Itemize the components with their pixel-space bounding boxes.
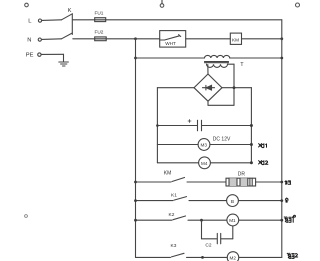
fuse FU2 (95, 37, 107, 41)
junction right rail primary (280, 57, 283, 60)
labels text (26, 8, 246, 260)
wire to WHT box (136, 38, 160, 40)
node L terminal (38, 19, 61, 22)
tiny right-side labels drawn as glyph blobs (259, 144, 298, 259)
top terminal circle center with stem (160, 0, 164, 7)
contact K2 rung (136, 216, 227, 220)
junction C1 left (156, 124, 159, 127)
wire PE down (63, 54, 65, 61)
ground (59, 62, 69, 66)
heater DR (226, 178, 256, 186)
svg-text:C2: C2 (205, 242, 211, 248)
motor M4 rung (157, 157, 251, 169)
transformer T secondary (207, 64, 228, 67)
capacitor C2 branch (202, 220, 233, 244)
capacitor C1 rung (157, 120, 251, 131)
wire secondary right over to bridge bottom (208, 64, 234, 105)
wire B to right rail (238, 200, 281, 202)
svg-text:KM: KM (164, 171, 172, 177)
wire secondary left to bridge top (207, 65, 209, 75)
junction rail A transformer feed (134, 57, 137, 60)
transformer core (205, 62, 229, 63)
svg-text:N: N (27, 38, 31, 44)
junction M4 right (250, 161, 253, 164)
label Xa1 (pump 1) (259, 144, 267, 148)
svg-text:K: K (68, 8, 72, 14)
right rail (281, 20, 283, 258)
small circle o left-bottom (25, 215, 28, 218)
wire primary feed left (136, 57, 205, 59)
svg-text:K1: K1 (171, 193, 177, 199)
wire WHT to KM coil (186, 38, 231, 40)
contact KM rung (136, 178, 227, 183)
svg-text:M3: M3 (201, 143, 208, 148)
wire KM to right rail (242, 38, 282, 40)
rail B' (DC right) (250, 88, 252, 163)
svg-text:FU2: FU2 (95, 29, 104, 34)
bridge rectifier diamond (194, 74, 222, 101)
svg-text:PE: PE (26, 52, 34, 58)
motor M1 (227, 214, 239, 226)
transformer T primary (205, 55, 230, 58)
diode inside bridge (203, 85, 215, 90)
junction rail A top (134, 37, 137, 40)
label bell (one CJK blob) (285, 198, 288, 202)
contact K1 rung (136, 197, 227, 201)
wire FU2 to rail A (106, 38, 135, 40)
fuse FU1 (95, 18, 106, 22)
svg-text:K2: K2 (169, 212, 175, 218)
wire L to FU1 (73, 19, 95, 21)
wire N to FU2 (73, 38, 95, 40)
junction bottom dot (201, 256, 204, 259)
contact K3 bottom rung (136, 253, 228, 257)
switch K pole 1 (62, 14, 73, 20)
junction right rail K2 rung (280, 219, 283, 222)
svg-text:K3: K3 (171, 243, 177, 249)
motor M3 rung (157, 139, 251, 151)
switch K pole 2 (62, 33, 73, 39)
junction M3 right (250, 143, 253, 146)
label fan1 (CJK blobs + 1 + degree) (284, 215, 295, 222)
node PE terminal (38, 53, 64, 56)
thermostat WHT box (160, 31, 186, 47)
junction right rail N (280, 37, 283, 40)
junction C1 right (250, 124, 253, 127)
label Xa2 (pump 2) (259, 161, 268, 165)
wire bridge left output (157, 87, 194, 89)
label fan2 (CJK blobs + 2) (287, 253, 297, 258)
node N terminal (38, 38, 61, 41)
svg-text:DC 12V: DC 12V (213, 136, 231, 142)
top terminal circle right (296, 3, 300, 7)
svg-text:M4: M4 (201, 161, 208, 166)
junction secondary drop crossing (233, 86, 236, 89)
svg-text:DR: DR (238, 172, 246, 178)
top terminal circle left (25, 3, 29, 7)
switch K link bar (71, 14, 73, 35)
label heater (two CJK blobs) (285, 181, 291, 185)
wire primary to right rail (230, 57, 282, 59)
wire DR to right rail (256, 181, 282, 183)
rail B (DC left) (156, 88, 158, 163)
junction rail A K2 (134, 219, 137, 222)
junction right rail KM rung (280, 181, 283, 184)
junction C2 branch (200, 219, 203, 222)
svg-text:L: L (28, 19, 32, 25)
svg-text:KM: KM (232, 38, 239, 43)
wire M1 to right rail (239, 219, 282, 221)
wire bridge right output (222, 87, 251, 89)
svg-text:M1: M1 (229, 218, 236, 223)
svg-text:B: B (231, 199, 234, 205)
wire L line to right rail (106, 19, 282, 21)
junction right rail K1 rung (280, 199, 283, 202)
wire M2 to right rail corner (239, 256, 282, 258)
svg-text:T: T (240, 62, 244, 68)
svg-text:WHT: WHT (165, 41, 176, 46)
bell B (227, 195, 239, 207)
rail A (left ladder rail) (135, 39, 137, 258)
motor M2 (227, 252, 239, 261)
svg-text:M2: M2 (230, 256, 237, 261)
junction rail A K1 (134, 199, 137, 202)
junction rail A KM (134, 181, 137, 184)
svg-text:FU1: FU1 (95, 10, 104, 15)
contactor coil KM box (230, 33, 241, 44)
